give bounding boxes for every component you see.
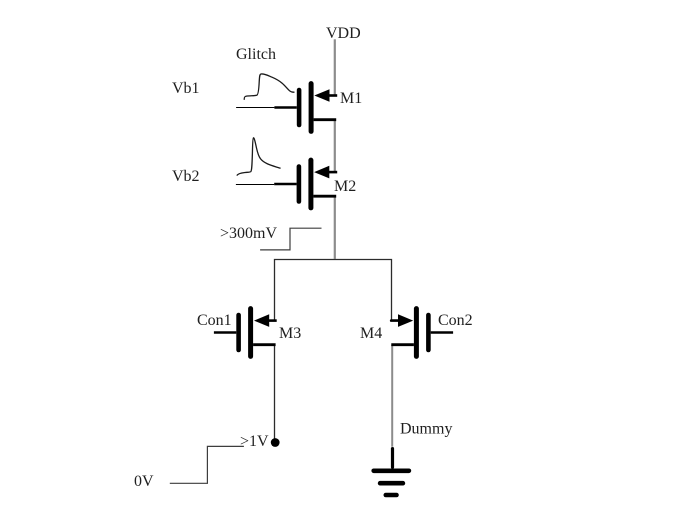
- svg-text:Con1: Con1: [197, 312, 232, 329]
- wire branch junction to M3 and M4 drains: [275, 260, 392, 321]
- wire M3 source to node dot: [274, 345, 276, 440]
- svg-text:M3: M3: [279, 325, 301, 342]
- svg-text:Glitch: Glitch: [236, 46, 276, 63]
- step waveform >300mV: [260, 228, 321, 250]
- transistor M1: [236, 84, 337, 132]
- svg-text:M4: M4: [360, 325, 382, 342]
- wire M4 source to ground: [391, 345, 393, 447]
- glitch waveform at Vb2: [237, 138, 281, 176]
- svg-text:>300mV: >300mV: [220, 225, 277, 242]
- svg-text:Vb1: Vb1: [172, 80, 200, 97]
- svg-text:Vb2: Vb2: [172, 168, 200, 185]
- wire VDD to M1 drain: [334, 39, 336, 95]
- transistor M2: [236, 160, 337, 208]
- svg-text:0V: 0V: [134, 473, 154, 490]
- ground: [374, 449, 409, 495]
- transistor M4: [391, 309, 453, 357]
- node dot >1V: [271, 438, 280, 447]
- svg-text:M2: M2: [334, 178, 356, 195]
- transistor M3: [214, 309, 277, 357]
- wire M2 source to junction: [334, 196, 336, 259]
- svg-text:M1: M1: [340, 90, 362, 107]
- svg-text:>1V: >1V: [240, 433, 269, 450]
- wire M1 source to M2 drain: [334, 120, 336, 172]
- glitch waveform at Vb1: [244, 74, 294, 100]
- step waveform 0V to >1V: [170, 446, 244, 483]
- svg-text:VDD: VDD: [326, 25, 361, 42]
- svg-text:Con2: Con2: [438, 312, 473, 329]
- svg-text:Dummy: Dummy: [400, 421, 452, 438]
